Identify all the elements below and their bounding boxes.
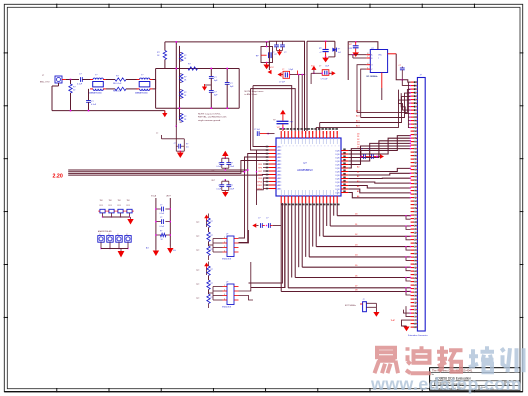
svg-text:ABC: ABC <box>278 145 282 148</box>
svg-text:J?: J? <box>363 299 365 301</box>
svg-text:R#1: R#1 <box>109 205 112 207</box>
svg-text:A0: A0 <box>357 165 359 168</box>
svg-text:ABC: ABC <box>278 170 282 173</box>
svg-text:R?: R? <box>184 55 186 57</box>
svg-text:SN65LVDS: SN65LVDS <box>222 259 232 261</box>
svg-text:J#: J# <box>126 234 128 236</box>
svg-text:MABAES0060: MABAES0060 <box>89 92 103 95</box>
svg-text:C?: C? <box>160 204 162 206</box>
svg-text:single common ground.: single common ground. <box>198 119 221 122</box>
svg-text:NOTE: Keep traces: NOTE: Keep traces <box>245 90 265 93</box>
svg-text:RSTVBL, and RSLTBLO with: RSTVBL, and RSLTBLO with <box>198 116 227 119</box>
svg-text:D8: D8 <box>355 289 357 291</box>
svg-text:R?: R? <box>184 92 186 94</box>
svg-text:J#: J# <box>108 234 110 236</box>
svg-text:BNC_VTO: BNC_VTO <box>40 82 50 84</box>
svg-text:R?: R? <box>211 283 213 285</box>
svg-text:VC?: VC? <box>277 127 280 129</box>
svg-text:VCC: VCC <box>270 67 275 69</box>
svg-text:RE 0.1uF: RE 0.1uF <box>113 83 122 85</box>
svg-text:TB#: TB# <box>118 200 121 202</box>
svg-text:ABC: ABC <box>278 180 282 183</box>
svg-text:C? 10uF: C? 10uF <box>321 79 329 81</box>
svg-text:7: 7 <box>367 56 368 58</box>
svg-text:A3: A3 <box>357 180 359 183</box>
svg-text:ANA RSTDE A/B: ANA RSTDE A/B <box>98 230 112 233</box>
svg-text:ABC: ABC <box>278 187 282 190</box>
svg-text:www.edatop.com: www.edatop.com <box>370 374 522 394</box>
svg-text:4.6: 4.6 <box>186 147 189 149</box>
svg-text:R#1: R#1 <box>118 205 121 207</box>
svg-text:10uF: 10uF <box>325 65 329 67</box>
svg-text:R#1: R#1 <box>100 205 103 207</box>
svg-text:D6: D6 <box>355 275 357 277</box>
svg-text:SN65LVDS: SN65LVDS <box>222 307 232 309</box>
svg-text:MABAES0060: MABAES0060 <box>135 92 149 95</box>
svg-text:FB?: FB? <box>290 122 293 124</box>
svg-text:RF10: RF10 <box>257 181 262 183</box>
svg-text:ABC: ABC <box>278 173 282 176</box>
svg-text:L?: L? <box>361 149 363 151</box>
svg-text:C? 1nF: C? 1nF <box>254 129 261 131</box>
svg-text:RF7: RF7 <box>258 171 262 173</box>
svg-text:C?: C? <box>266 218 268 220</box>
svg-text:D2: D2 <box>355 234 357 236</box>
svg-text:RF12: RF12 <box>257 188 262 190</box>
svg-text:TB#: TB# <box>100 200 103 202</box>
svg-text:C? 1nF: C? 1nF <box>279 81 286 83</box>
svg-text:T?: T? <box>156 133 158 135</box>
svg-text:A6: A6 <box>357 195 359 198</box>
svg-text:D4: D4 <box>355 255 357 257</box>
svg-text:U?: U? <box>303 161 307 165</box>
svg-text:Futurebus Connector: Futurebus Connector <box>408 334 428 337</box>
svg-text:A4: A4 <box>357 185 359 188</box>
svg-text:AVT?: AVT? <box>167 195 171 198</box>
svg-text:C?: C? <box>284 52 286 54</box>
svg-text:ABC: ABC <box>278 177 282 180</box>
svg-text:VC?: VC? <box>349 44 352 46</box>
svg-text:RF6: RF6 <box>258 167 262 169</box>
svg-text:C?: C? <box>160 217 162 219</box>
svg-text:R#1: R#1 <box>127 205 130 207</box>
svg-text:TP?: TP? <box>196 236 199 238</box>
svg-text:AD1: AD1 <box>356 124 360 127</box>
svg-text:R?: R? <box>184 116 186 118</box>
svg-text:AD1: AD1 <box>356 115 360 118</box>
svg-text:A1: A1 <box>357 170 359 173</box>
svg-text:XO 100MHz: XO 100MHz <box>366 76 377 78</box>
svg-text:2.20: 2.20 <box>53 174 63 180</box>
svg-text:ABC: ABC <box>278 184 282 187</box>
svg-text:RE 0.1uF: RE 0.1uF <box>113 91 122 93</box>
svg-text:C?: C? <box>399 65 401 67</box>
svg-text:C?: C? <box>319 65 321 67</box>
svg-text:ABC: ABC <box>278 152 282 155</box>
svg-text:C?: C? <box>218 163 220 165</box>
svg-text:AD9858BSV: AD9858BSV <box>297 168 313 172</box>
svg-text:C?: C? <box>231 185 233 187</box>
svg-text:RF9: RF9 <box>258 178 262 180</box>
svg-text:RF11: RF11 <box>258 185 262 187</box>
svg-text:R?: R? <box>338 49 340 51</box>
svg-text:TP?: TP? <box>196 298 199 300</box>
svg-text:0.1uF: 0.1uF <box>91 104 97 106</box>
svg-text:TLA?: TLA? <box>390 319 395 322</box>
svg-text:C?: C? <box>368 149 370 151</box>
svg-text:TP?: TP? <box>196 222 199 224</box>
svg-text:R?: R? <box>211 269 213 271</box>
svg-text:D5: D5 <box>357 147 359 149</box>
svg-text:R?: R? <box>211 297 213 299</box>
svg-text:C?: C? <box>231 163 233 165</box>
svg-text:8: 8 <box>367 53 368 55</box>
svg-text:7: 7 <box>378 58 379 60</box>
svg-text:U?: U? <box>226 234 228 236</box>
svg-text:C?: C? <box>258 218 260 220</box>
svg-text:TP?: TP? <box>196 284 199 286</box>
svg-text:VC?: VC? <box>211 170 215 172</box>
svg-text:R?: R? <box>211 249 213 251</box>
svg-text:R?: R? <box>211 221 213 223</box>
svg-text:0.1uF: 0.1uF <box>77 84 83 86</box>
svg-text:J#: J# <box>99 234 101 236</box>
svg-text:R?: R? <box>186 144 188 146</box>
svg-text:ABC: ABC <box>278 163 282 166</box>
svg-text:NOTE: Lay out CTVOL,: NOTE: Lay out CTVOL, <box>198 113 221 116</box>
svg-text:C?: C? <box>174 143 176 145</box>
svg-text:RF5: RF5 <box>258 164 262 166</box>
svg-text:D3: D3 <box>355 244 357 246</box>
svg-text:VCCA: VCCA <box>151 195 157 198</box>
svg-text:4: 4 <box>367 63 368 65</box>
svg-text:TP?: TP? <box>196 250 199 252</box>
svg-text:EXT 50MHz: EXT 50MHz <box>345 305 356 307</box>
svg-text:D7: D7 <box>355 286 357 288</box>
svg-text:ABC: ABC <box>278 156 282 159</box>
svg-text:AD1: AD1 <box>356 110 360 113</box>
svg-text:U?: U? <box>226 282 228 284</box>
svg-text:J#: J# <box>117 234 119 236</box>
svg-text:TP?: TP? <box>196 270 199 272</box>
svg-text:RF8: RF8 <box>258 174 262 176</box>
svg-text:AD1: AD1 <box>356 120 360 123</box>
svg-text:u?: u? <box>320 52 322 54</box>
svg-text:TB#: TB# <box>127 200 130 202</box>
svg-text:D5: D5 <box>355 265 357 267</box>
svg-text:C?: C? <box>282 69 284 71</box>
svg-text:TB#: TB# <box>109 200 112 202</box>
svg-text:ABC: ABC <box>278 159 282 162</box>
svg-text:ABC: ABC <box>278 166 282 169</box>
svg-text:A2: A2 <box>357 175 359 178</box>
svg-text:C?: C? <box>218 185 220 187</box>
svg-text:A5: A5 <box>357 190 359 193</box>
svg-text:R?: R? <box>211 235 213 237</box>
svg-text:D0: D0 <box>355 214 357 216</box>
svg-text:R?: R? <box>275 54 277 56</box>
svg-text:to BNC short.: to BNC short. <box>245 93 259 96</box>
svg-text:ABC: ABC <box>278 149 282 152</box>
svg-text:1: 1 <box>367 67 368 69</box>
svg-text:D1: D1 <box>355 224 357 226</box>
svg-text:VD?: VD? <box>211 180 215 182</box>
svg-text:R?: R? <box>160 230 162 232</box>
svg-text:C?: C? <box>272 52 274 54</box>
svg-text:R?: R? <box>184 76 186 78</box>
svg-text:R?: R? <box>273 119 275 121</box>
